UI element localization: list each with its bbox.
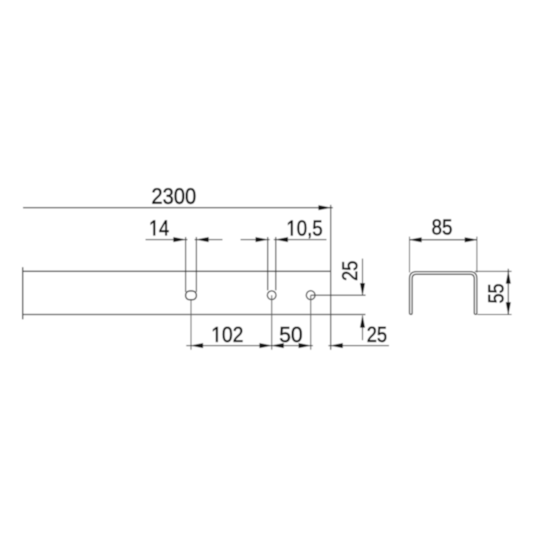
- dim 85 line: [410, 239, 477, 241]
- slot left side: [185, 237, 187, 292]
- dim 25 vertical rotated text: [342, 261, 357, 280]
- rail right edge / extension line: [330, 205, 332, 350]
- dim 14 right arrow: [197, 237, 209, 242]
- dim 85 right arrow: [465, 238, 477, 243]
- hole H3 circle: [306, 291, 315, 300]
- dim 14 left stem: [146, 239, 188, 241]
- hole H2 center line: [271, 295, 273, 350]
- hole H2 right side: [275, 237, 277, 290]
- dim 25 vertical down arrow: [360, 283, 365, 295]
- dim 25 vertical upper stem: [362, 259, 364, 296]
- dim 102 text: [213, 327, 242, 342]
- dim 10,5 left arrow: [256, 237, 268, 242]
- dim 10,5 right stem: [274, 239, 327, 241]
- dim 14 right stem: [195, 239, 223, 241]
- slot bottom oval: [186, 291, 197, 300]
- dim 50 left arrow: [272, 343, 284, 348]
- hole H3 center extension right: [311, 294, 366, 296]
- dim 2300 arrow: [319, 205, 331, 210]
- dim 55 down arrow: [506, 302, 511, 314]
- dim 55 bottom extension: [478, 314, 512, 316]
- dim 85 left arrow: [410, 238, 422, 243]
- dim 14 left arrow: [174, 237, 186, 242]
- dim 2300 text: [152, 188, 195, 204]
- dim 25 vertical lower stem: [362, 316, 364, 341]
- dim 50 text: [280, 327, 302, 342]
- slot center line: [190, 300, 192, 349]
- rail bottom extension right: [331, 314, 366, 316]
- dim 102-50 chain line: [186, 345, 313, 347]
- dim 55 top extension: [475, 270, 512, 272]
- dim 102 right arrow: [260, 343, 272, 348]
- rail bottom edge: [23, 314, 331, 316]
- rail left break line: [22, 267, 24, 319]
- hole H2 left side: [267, 237, 269, 290]
- hole H3 center line: [310, 295, 312, 349]
- dim 10,5 text: [288, 220, 322, 238]
- dim 55 rotated text: [488, 284, 503, 302]
- dim 50 right arrow: [299, 343, 311, 348]
- dim 25 end-distance arrow: [331, 343, 343, 348]
- dim 55 line: [507, 269, 509, 315]
- dim 85 left extension: [409, 237, 411, 273]
- dim 10,5 right arrow: [276, 237, 288, 242]
- dim 25 end-distance text: [368, 327, 387, 342]
- dim 85 text: [432, 219, 451, 234]
- slot right side: [195, 237, 197, 292]
- dim 85 right extension: [476, 237, 478, 273]
- dim 25 vertical up arrow: [360, 316, 365, 328]
- dim 25 end-distance stem: [328, 345, 389, 347]
- dim 10,5 left stem: [241, 239, 270, 241]
- profile cross-section: [410, 272, 477, 315]
- dim 102 left arrow: [191, 343, 203, 348]
- dim 2300 line: [23, 207, 333, 209]
- dim 55 up arrow: [506, 272, 511, 284]
- rail top edge: [23, 270, 331, 272]
- hole H2 circle: [267, 291, 276, 300]
- dim 14 text: [151, 220, 169, 235]
